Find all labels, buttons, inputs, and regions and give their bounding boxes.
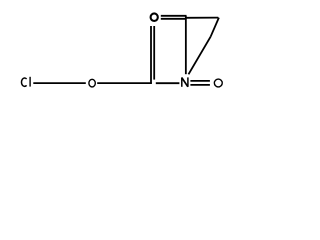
ring edge C2-C3 (top): [186, 17, 219, 19]
double bond N=O lower line: [190, 84, 210, 86]
double bond N=O upper line: [190, 80, 210, 82]
atom label N: [182, 77, 188, 86]
bond Cl-O: [33, 82, 86, 84]
atom label O (nitroso): [214, 79, 222, 87]
atom label Cl : letter l: [29, 77, 31, 87]
double bond O=C2 upper line: [161, 15, 187, 17]
ring bond C4-N (lower diagonal): [189, 37, 211, 75]
chemical structure diagram 245x103: [0, 0, 245, 103]
double bond C1=O (vertical) inner line: [153, 26, 155, 80]
ring bond C2-N (vertical): [185, 16, 187, 74]
double bond O=C2 lower line: [161, 18, 187, 20]
ring bond C3-C4 (upper diagonal): [211, 18, 219, 37]
atom label O (top carbonyl, bold/overlapped): [151, 13, 158, 21]
bond C1-N: [156, 82, 180, 84]
double bond C1=O (vertical) outer line: [150, 26, 152, 84]
atom label O (ether): [89, 79, 95, 87]
atom label Cl : letter C: [21, 78, 26, 86]
bond O-C1: [97, 82, 152, 84]
